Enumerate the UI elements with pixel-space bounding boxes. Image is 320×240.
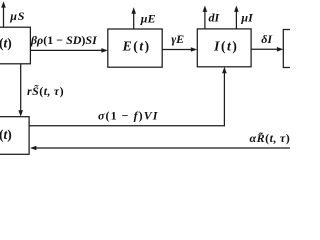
label gamma E [171,32,184,46]
label V(t) in box V [0,127,12,142]
svg-text:σ(1 − f)VI: σ(1 − f)VI [98,108,159,122]
arrow muS up [1,1,6,27]
arrow S to E [30,48,108,53]
wire sigma(1-f)VI from V to under I [29,67,227,126]
label muS [9,9,25,23]
label muE [140,11,156,25]
label muI [240,11,254,25]
arrow E to I [162,47,197,52]
svg-text:E(t): E(t) [122,39,151,54]
arrow muE up [131,7,136,29]
label alpha R-tilde (t,tau) [250,131,291,145]
label delta I [261,32,273,46]
arrow S down to V [18,64,23,117]
arrow muI up [234,6,239,30]
label beta rho (1-SD) SI [30,33,98,47]
label S(t) in box S [0,36,12,51]
svg-text:δI: δI [261,32,273,46]
box V(t) [0,117,29,155]
label E(t) in box E [122,39,151,54]
label I(t) in box I [213,39,238,54]
svg-text:βρ(1 − SD)SI: βρ(1 − SD)SI [30,33,98,47]
box right (cropped) [283,30,303,68]
svg-text:I(t): I(t) [213,39,238,54]
arrow I to right box [251,47,283,52]
svg-text:μI: μI [240,11,254,25]
arrow dI up [203,6,208,30]
svg-text:(t): (t) [0,127,12,142]
box I(t) [197,29,251,67]
svg-text:rS̃(t, τ): rS̃(t, τ) [27,84,64,98]
label r S-tilde (t,tau) [27,84,64,98]
svg-text:αR̃(t, τ): αR̃(t, τ) [250,131,291,145]
svg-text:μS: μS [9,9,25,23]
box S(t) [0,27,30,64]
svg-text:μE: μE [140,11,156,25]
svg-text:dI: dI [209,11,221,25]
label sigma(1-f)VI [98,108,159,122]
label dI [209,11,221,25]
svg-text:(t): (t) [0,36,12,51]
wire alphaR(t,tau) from right edge into V [30,146,290,151]
box E(t) [108,29,162,67]
svg-text:γE: γE [171,32,184,46]
